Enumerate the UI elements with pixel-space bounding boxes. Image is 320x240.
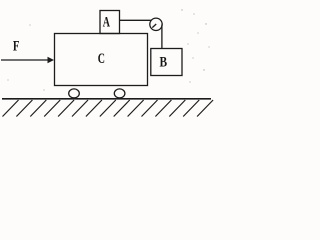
wheel right [114, 89, 125, 98]
svg-text:F: F [13, 38, 20, 54]
ground [2, 98, 211, 100]
wire force F line [1, 59, 49, 61]
pulley axle tick [152, 24, 156, 28]
wire string A to pulley [120, 19, 152, 21]
svg-text:B: B [160, 55, 168, 71]
svg-text:A: A [103, 14, 110, 30]
force F arrowhead [48, 57, 55, 63]
wire string pulley to B [161, 25, 163, 49]
ground hatching [3, 100, 214, 117]
block A [100, 11, 120, 34]
wheel left [69, 89, 80, 98]
block C [55, 34, 148, 86]
svg-text:C: C [98, 51, 105, 67]
pulley [150, 18, 162, 30]
block B [151, 49, 182, 76]
scan speckles [7, 9, 209, 90]
